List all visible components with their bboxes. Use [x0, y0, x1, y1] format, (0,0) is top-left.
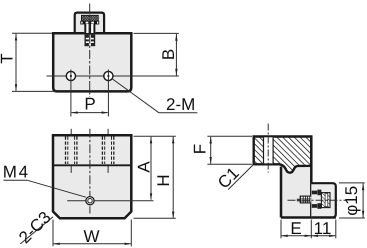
bolt shank (top view): [84, 24, 95, 33]
front view block body with bottom chamfers: [53, 135, 131, 218]
dimension T extension lines: [12, 32, 52, 34]
svg-text:11: 11: [314, 219, 332, 238]
svg-text:C1: C1: [214, 164, 243, 193]
top view hole center horizontal line: [47, 75, 179, 77]
bolt center line (side view): [288, 199, 346, 201]
dimension phi15 line: [362, 183, 364, 217]
bolt head (top view, hatched): [82, 15, 99, 21]
top view boss tab: [75, 13, 104, 34]
dimension H bottom extension: [134, 217, 176, 219]
hidden thread lines left hole: [66, 137, 77, 165]
hidden thread lines right hole: [102, 137, 113, 165]
hole vertical center lines / P extension lines: [70, 70, 72, 117]
front view horizontal center line through M4: [67, 200, 153, 202]
slab hole band (white): [264, 137, 274, 163]
svg-text:φ15: φ15: [342, 186, 361, 216]
svg-text:F: F: [191, 144, 210, 154]
hole left (top view): [66, 71, 75, 80]
hole right (top view): [104, 71, 113, 80]
dimension E/11 line: [282, 235, 336, 237]
leader C1: [228, 165, 253, 190]
boss cylinder (side view): [311, 183, 336, 217]
dimension H line: [172, 137, 174, 218]
svg-text:B: B: [159, 49, 178, 60]
dimension A line: [150, 137, 152, 200]
dimension phi15 extension lines: [339, 182, 365, 184]
hatched slab section: [254, 137, 312, 173]
top view vertical center line: [89, 4, 91, 98]
svg-text:2-M: 2-M: [166, 95, 195, 114]
dimension T line: [15, 34, 17, 91]
top view block body: [53, 33, 131, 91]
dimension A/H top extension: [134, 135, 176, 137]
front view slab edge line: [53, 164, 131, 166]
dimension W extension lines: [52, 220, 54, 247]
bolt thread below top edge (top view): [85, 35, 96, 47]
dimension E/11 extension lines: [280, 220, 282, 239]
dimension B line: [175, 34, 177, 76]
slab hole center line: [267, 124, 269, 173]
M4 hole: [86, 197, 94, 205]
svg-text:A: A: [135, 161, 154, 173]
svg-text:2-C3: 2-C3: [15, 208, 54, 247]
leader 2-M: [113, 79, 159, 113]
hole center lines front view: [71, 129, 108, 173]
dimension P line: [72, 112, 108, 114]
front view vertical center line: [89, 129, 91, 214]
svg-text:M4: M4: [3, 163, 30, 182]
dimension B extension line top: [134, 32, 179, 34]
svg-text:H: H: [154, 174, 173, 186]
svg-text:E: E: [290, 219, 301, 238]
leg body: [281, 164, 311, 218]
dimension W line: [54, 243, 131, 245]
svg-text:T: T: [0, 53, 17, 63]
leader 2-C3: [20, 217, 53, 244]
svg-text:P: P: [84, 94, 95, 113]
leg outline: [281, 136, 336, 217]
dimension F extension lines: [207, 135, 252, 137]
bolt washer and head (side view, hatched): [312, 190, 330, 209]
dimension F line: [210, 137, 212, 164]
svg-text:W: W: [83, 227, 99, 246]
bolt spring washer band (top view): [81, 21, 99, 24]
bolt thread in leg (side view): [297, 196, 312, 204]
